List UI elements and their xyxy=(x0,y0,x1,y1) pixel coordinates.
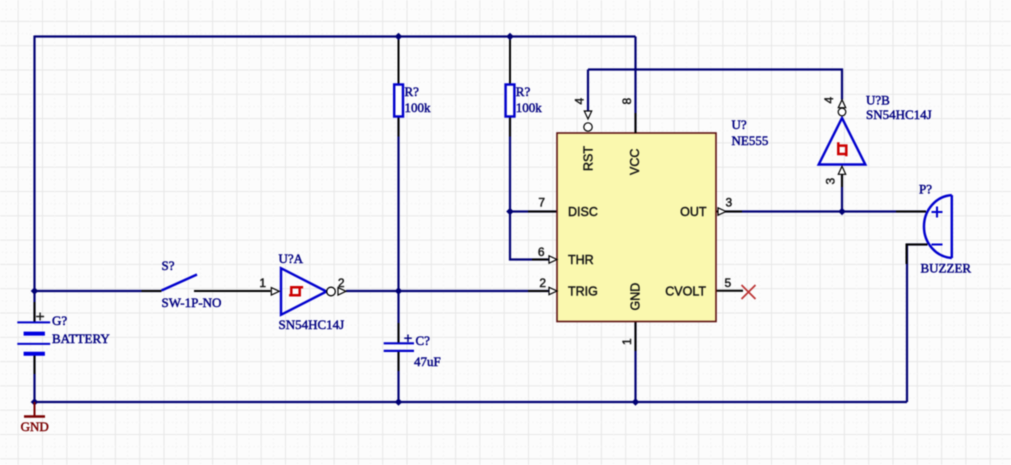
pin stub capacitor top xyxy=(398,323,400,343)
ground symbol GND xyxy=(21,402,49,434)
pin stub battery bottom xyxy=(34,354,36,374)
wire R1 bottom to capacitor xyxy=(397,117,399,344)
op-amp U1B inverter SN54HC14J xyxy=(819,100,866,175)
wire switch to U?A input xyxy=(194,290,271,292)
IC U1 NE555 body xyxy=(557,133,716,322)
pin stub R2 bottom xyxy=(509,117,511,137)
svg-text:3: 3 xyxy=(726,196,733,210)
pin CVOLT stub xyxy=(716,290,743,292)
wire left rail lower (battery -) xyxy=(33,354,35,403)
wire buzzer top feed xyxy=(842,210,926,212)
battery G? xyxy=(17,313,50,354)
pin stub buzzer bottom xyxy=(907,245,928,265)
svg-text:U?: U? xyxy=(732,117,747,132)
op-amp U1A inverter SN54HC14J xyxy=(271,268,346,315)
svg-text:6: 6 xyxy=(538,245,545,259)
node junction out/U?B xyxy=(838,208,846,216)
pin stub 555 GND xyxy=(635,322,637,352)
pin stub R1 bottom xyxy=(398,117,400,137)
wire 555 OUT to junction xyxy=(725,210,842,212)
node junction top R1 xyxy=(395,33,403,41)
wire R2 bottom to DISC node xyxy=(509,117,511,212)
wire U?B output up and across to RST xyxy=(588,70,842,100)
wire right riser to buzzer xyxy=(907,245,928,403)
node junction disc/thr xyxy=(506,208,514,216)
wire U?B input pin xyxy=(841,172,843,212)
wire DISC pin xyxy=(510,210,557,212)
pin stub OUT xyxy=(716,211,742,213)
pin CVOLT (5) xyxy=(665,276,731,299)
svg-text:NE555: NE555 xyxy=(732,133,769,148)
buzzer P? xyxy=(924,195,952,258)
wire VCC drop from top rail xyxy=(634,37,636,134)
svg-text:U?B: U?B xyxy=(866,93,890,108)
wire left rail upper (battery +) xyxy=(33,36,35,323)
node junction gnd cap xyxy=(395,398,403,406)
svg-text:3: 3 xyxy=(824,178,838,185)
svg-text:P?: P? xyxy=(919,182,932,197)
switch S1 blade xyxy=(162,275,198,291)
pin DISC (7) xyxy=(538,196,598,220)
svg-text:2: 2 xyxy=(338,276,345,290)
pin OUT (3) xyxy=(680,196,732,220)
svg-text:C?: C? xyxy=(416,333,431,348)
svg-text:SW-1P-NO: SW-1P-NO xyxy=(162,295,222,310)
svg-text:100k: 100k xyxy=(516,100,543,115)
svg-text:CVOLT: CVOLT xyxy=(665,285,706,299)
svg-text:SN54HC14J: SN54HC14J xyxy=(279,317,345,332)
svg-text:DISC: DISC xyxy=(568,205,598,219)
svg-text:U?A: U?A xyxy=(279,251,304,266)
node junction battery tap xyxy=(31,287,39,295)
svg-text:7: 7 xyxy=(538,196,545,210)
node junction gnd 555 xyxy=(632,398,640,406)
wire bottom ground rail xyxy=(35,401,908,403)
svg-text:GND: GND xyxy=(21,419,49,434)
pin stub switch left xyxy=(142,290,162,292)
svg-text:BUZZER: BUZZER xyxy=(921,261,972,276)
pin stub buzzer top xyxy=(896,211,926,213)
pin RST (4) xyxy=(573,98,596,172)
node junction top R2 xyxy=(506,33,514,41)
wire DISC node to THR xyxy=(510,212,549,260)
pin GND (1) xyxy=(620,283,643,345)
wire battery + to switch xyxy=(35,290,162,292)
pin THR (6) xyxy=(538,245,594,267)
pin stub battery top xyxy=(34,302,36,322)
pin stub U?B input xyxy=(841,167,843,187)
pin TRIG (2) xyxy=(539,276,598,299)
pin VCC (8) xyxy=(620,98,642,176)
svg-text:4: 4 xyxy=(822,97,836,104)
svg-text:1: 1 xyxy=(620,338,634,345)
svg-text:THR: THR xyxy=(568,253,594,267)
svg-text:VCC: VCC xyxy=(628,149,642,175)
capacitor C1 47uF xyxy=(384,335,414,351)
svg-text:100k: 100k xyxy=(405,100,432,115)
svg-text:2: 2 xyxy=(539,276,546,290)
wire capacitor to ground rail xyxy=(397,351,399,402)
svg-text:RST: RST xyxy=(582,146,596,171)
pin stub TRIG xyxy=(528,290,548,292)
svg-text:OUT: OUT xyxy=(680,205,707,219)
svg-text:R?: R? xyxy=(516,84,531,99)
svg-text:SN54HC14J: SN54HC14J xyxy=(866,107,932,122)
pin stub DISC xyxy=(528,211,556,213)
svg-text:R?: R? xyxy=(405,84,420,99)
svg-text:8: 8 xyxy=(620,98,634,105)
node junction trig/cap xyxy=(395,287,403,295)
svg-text:5: 5 xyxy=(725,276,732,290)
svg-text:47uF: 47uF xyxy=(414,354,441,369)
pin stub capacitor bottom xyxy=(398,351,400,371)
wire RST drop xyxy=(587,70,589,114)
svg-text:G?: G? xyxy=(52,313,67,328)
wire R2 top pin xyxy=(509,37,511,85)
wire top power rail xyxy=(35,35,636,37)
resistor R2 xyxy=(506,85,515,117)
svg-text:4: 4 xyxy=(573,98,587,105)
svg-text:BATTERY: BATTERY xyxy=(52,331,110,346)
svg-text:GND: GND xyxy=(629,283,643,311)
resistor R1 xyxy=(394,85,403,117)
svg-text:TRIG: TRIG xyxy=(568,285,598,299)
no-ERC marker pin 5 xyxy=(742,285,756,299)
wire U?A output to TRIG xyxy=(346,290,549,292)
node junction gnd left xyxy=(31,398,39,406)
pin stub THR xyxy=(532,259,548,261)
wire R1 top pin xyxy=(398,37,400,85)
wire 555 GND pin to rail xyxy=(634,322,636,403)
svg-text:S?: S? xyxy=(162,258,175,273)
svg-text:1: 1 xyxy=(259,276,266,290)
